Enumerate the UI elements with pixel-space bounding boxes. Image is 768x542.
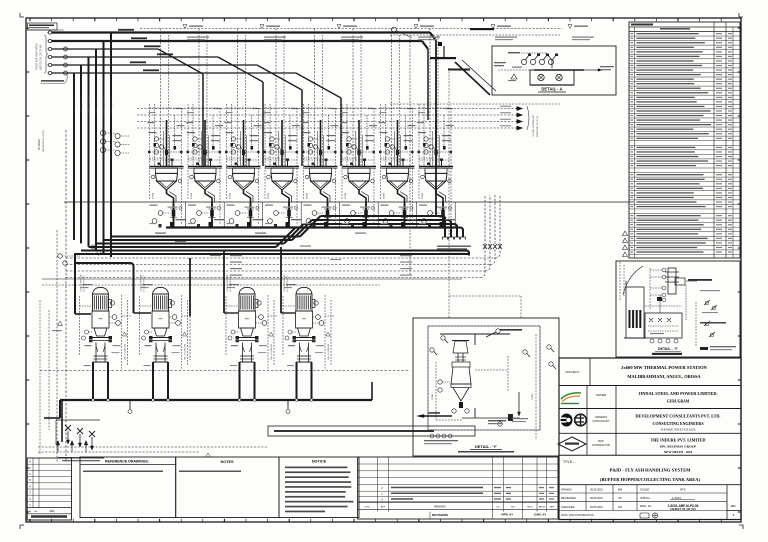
unit 5 cell texts	[304, 205, 312, 206]
unit 5 riser valves	[308, 143, 311, 146]
svg-text:1 NOS HOPPER A/B: 1 NOS HOPPER A/B	[226, 274, 229, 292]
svg-text:REVIEWED: REVIEWED	[561, 496, 576, 500]
air header flag 2	[260, 25, 264, 29]
unit 4 top texts	[264, 132, 272, 133]
detail Y outlet arrow	[424, 415, 452, 417]
svg-text:MECH: MECH	[539, 507, 546, 509]
unit 2 inlet valve	[203, 150, 206, 155]
unit 8 side nozzles	[421, 175, 425, 179]
detail Y top pipe	[440, 333, 510, 335]
left instrument bubbles of unit row	[100, 130, 105, 135]
slurry pump 3 motor	[239, 287, 255, 294]
svg-text:(REFER DR. 04 CP 18): (REFER DR. 04 CP 18)	[537, 116, 539, 137]
title block outline	[559, 358, 741, 520]
unit 5 discharge pipe	[327, 202, 329, 228]
svg-text:DEVELOPMENT CONSULTANTS PVT. L: DEVELOPMENT CONSULTANTS PVT. LTD.	[636, 414, 721, 419]
header pipe labels	[155, 233, 166, 234]
unit 2 discharge valve	[210, 210, 214, 217]
svg-text:DRAWN: DRAWN	[561, 488, 571, 492]
buffer hopper 7	[381, 166, 415, 168]
svg-text:REF: REF	[50, 510, 55, 513]
FD drain dashed riser	[65, 130, 67, 462]
pump 3 dashed enclosure	[267, 295, 269, 370]
unit 4 cell separator	[300, 202, 302, 228]
unit 8 cell dark marks	[440, 222, 444, 227]
pump 2 texts	[143, 284, 153, 285]
unit 1 instrument bubbles	[154, 137, 158, 141]
svg-text:MALIBRAHMANI, ANGUL, ORISSA: MALIBRAHMANI, ANGUL, ORISSA	[627, 374, 701, 379]
unit 2 side nozzles	[190, 175, 194, 179]
boundary line y202	[64, 201, 634, 203]
svg-text:NTS: NTS	[680, 488, 686, 492]
detail Y2 dashed risers	[649, 268, 651, 310]
unit 8 valve instrument	[428, 211, 433, 216]
detail Y tank valves	[459, 402, 463, 408]
unit 2 valve instrument	[197, 211, 202, 216]
unit 6 cell separator	[377, 202, 379, 228]
unit 8 feed pipe	[435, 120, 437, 166]
svg-text:200NB (C) PIPES: 200NB (C) PIPES	[89, 96, 91, 114]
buffer hopper 1	[150, 166, 184, 168]
svg-text:No.: No.	[34, 511, 38, 513]
unit 7 discharge pipe	[404, 202, 406, 228]
slurry pump 2 motor	[153, 287, 169, 294]
unit 4 inter dashes	[265, 151, 297, 153]
slurry header run 4	[89, 246, 277, 248]
long dashed line y447 y452	[38, 446, 268, 448]
pump 1 discharge pipes	[92, 362, 94, 400]
unit 3 discharge pipe	[250, 202, 252, 228]
svg-text:PROJECT: PROJECT	[565, 370, 579, 374]
unit 4 cell texts	[265, 205, 273, 206]
unit 4 dashed enclosure	[265, 107, 297, 109]
unit 1 valve instrument	[158, 211, 163, 216]
detail Y dashed right vertical	[535, 334, 537, 440]
title block project row	[559, 385, 741, 387]
svg-text:NOTES: NOTES	[220, 460, 234, 464]
svg-text:200NB (C) PIPES: 200NB (C) PIPES	[111, 96, 113, 114]
unit 2 riser valves	[192, 143, 195, 146]
svg-text:FD DRAIN: FD DRAIN	[38, 139, 41, 150]
title block bottom grid	[559, 484, 741, 486]
unit 2 cell separator	[223, 202, 225, 228]
detail Y bottom left circles	[430, 434, 434, 438]
pump 1 column	[95, 343, 97, 363]
svg-text:DETAIL - A: DETAIL - A	[541, 87, 562, 92]
unit 8 top texts	[418, 132, 426, 133]
air header flag 5	[491, 25, 495, 29]
detail Y lower piping	[474, 408, 476, 418]
unit 6 discharge pipe	[365, 202, 367, 228]
detail A FROM PUMP label	[494, 62, 506, 63]
unit 6 valve instrument	[351, 211, 356, 216]
unit 2 cell dark marks	[209, 222, 213, 227]
ESP feed line 1	[48, 31, 51, 34]
air header dashed line	[140, 28, 562, 30]
mid branch vertical x190	[189, 258, 191, 316]
buffer hopper unit 8 risers	[429, 29, 431, 167]
svg-text:200NB (C) PIPES: 200NB (C) PIPES	[81, 96, 83, 114]
unit 7 valve instrument	[389, 211, 394, 216]
DETAIL Y2 box	[616, 261, 740, 357]
unit 3 discharge valve	[249, 210, 253, 217]
pump 2 discharge pipes	[152, 362, 154, 400]
unit 5 discharge valve	[326, 210, 330, 217]
notice table	[279, 457, 359, 518]
buffer hopper 4	[265, 166, 299, 168]
unit 5 top texts	[303, 132, 311, 133]
svg-text:JOB No.: JOB No.	[640, 496, 651, 500]
wetting head labels	[430, 57, 456, 59]
unit 1 dashed enclosure	[150, 107, 182, 109]
unit 7 top texts	[380, 132, 388, 133]
detail A strainer box	[530, 70, 574, 85]
svg-text:LP COMPRESSOR: LP COMPRESSOR	[144, 275, 146, 292]
svg-text:EM: EM	[618, 488, 623, 492]
unit 6 inlet valve	[357, 150, 360, 155]
svg-text:200NB (C) PIPES: 200NB (C) PIPES	[96, 96, 98, 114]
unit 1 cell separator	[185, 202, 187, 228]
bill of materials table	[629, 22, 740, 258]
unit 8 discharge pipe	[442, 202, 444, 228]
ESP feed drop pipe 6	[73, 73, 75, 240]
svg-text:P&ID - FLY ASH HANDLING SYST: P&ID - FLY ASH HANDLING SYSTEM	[610, 468, 692, 473]
unit 2 discharge pipe	[211, 202, 213, 228]
dashed entry to detail Y2	[619, 262, 621, 300]
unit 1 discharge pipe	[173, 202, 175, 228]
pump 3 casing	[239, 311, 256, 328]
pump 4 column	[299, 343, 301, 363]
unit 1 cell texts	[150, 205, 158, 206]
pump 4 suction cone	[298, 328, 311, 336]
unit 8 discharge valve	[441, 210, 445, 217]
svg-text:250NB: 250NB	[384, 192, 386, 199]
pump 2 side dashes	[139, 296, 141, 356]
slurry header run 5	[81, 250, 466, 252]
unit 7 inter dashes	[381, 151, 413, 153]
svg-text:OWNER'S: OWNER'S	[595, 415, 607, 419]
svg-text:1 NOS HOPPER A/B: 1 NOS HOPPER A/B	[283, 274, 286, 292]
unit 3 feed pipe	[243, 120, 245, 166]
svg-text:1W x 1S (2W+2S): 1W x 1S (2W+2S)	[185, 344, 187, 360]
unit 7 dashed enclosure	[381, 107, 413, 109]
pump 4 flange	[293, 337, 315, 339]
unit 8 inter dashes	[419, 151, 451, 153]
svg-text:150NB: 150NB	[532, 393, 534, 400]
pump 4 branch feed	[280, 247, 282, 313]
svg-text:(SHEET 01 OF 02): (SHEET 01 OF 02)	[670, 507, 695, 511]
dashed stub x521 into detail Y	[520, 296, 522, 318]
unit 1 cell dark marks	[170, 222, 174, 227]
sheet symbol	[640, 513, 649, 518]
pump 3 column	[242, 343, 244, 363]
pump 2 dashed enclosure	[181, 295, 183, 370]
unit 2 cell texts	[188, 205, 196, 206]
svg-text:(REFER DR 07 GP TH): (REFER DR 07 GP TH)	[43, 130, 45, 152]
unit 2 feed pipe	[204, 120, 206, 166]
unit 8 cell texts	[419, 205, 427, 206]
unit 7 outlet pipe	[398, 190, 405, 202]
long dashed line y370	[40, 370, 410, 372]
unit 6 instrument bubbles	[347, 137, 351, 141]
svg-text:REF.: REF.	[731, 504, 737, 508]
ESP feed drop pipe 2	[103, 41, 105, 254]
unit 5 dashed enclosure	[304, 107, 336, 109]
pump 2 column	[155, 343, 157, 363]
svg-text:1W x 1S (2W+2S): 1W x 1S (2W+2S)	[271, 344, 273, 360]
pump 2 suction cone	[154, 328, 167, 336]
unit 7 cell dark marks	[401, 222, 405, 227]
unit 4 discharge valve	[287, 210, 291, 217]
unit 2 inter dashes	[188, 151, 220, 153]
svg-text:NOTICE: NOTICE	[312, 460, 327, 464]
svg-text:CONSULTANT: CONSULTANT	[592, 419, 610, 423]
unit 3 cell texts	[227, 205, 235, 206]
pump 3 side dashes	[225, 296, 227, 356]
pump discharge header	[60, 399, 372, 401]
buffer hopper 2	[188, 166, 222, 168]
title block owner row	[559, 408, 741, 410]
svg-text:250NB: 250NB	[230, 192, 232, 199]
svg-text:250NB: 250NB	[307, 192, 309, 199]
svg-text:24-B PARK STREET KOLKATA: 24-B PARK STREET KOLKATA	[660, 429, 695, 432]
buffer hopper 8	[419, 166, 453, 168]
ESP feed drop pipe 4	[88, 57, 90, 247]
svg-text:CONTRACTOR: CONTRACTOR	[592, 443, 610, 447]
unit 7 feed pipe	[397, 120, 399, 166]
svg-text:DD: DD	[496, 507, 500, 509]
air header flag 4	[414, 25, 418, 29]
svg-text:APP: APP	[381, 506, 386, 509]
svg-text:CHKD. BY: CHKD. BY	[534, 513, 547, 517]
BOM revision deltas	[622, 231, 627, 236]
buffer hopper unit 3 risers	[237, 29, 239, 167]
ESP feed line 2	[48, 39, 51, 42]
unit 7 instrument bubbles	[385, 137, 389, 141]
frame tick marks left	[26, 27, 29, 29]
ESP feed drop pipe 1	[110, 33, 112, 258]
detail Y inner dashes	[435, 362, 437, 420]
svg-text:DETAIL - 'Y': DETAIL - 'Y'	[658, 347, 678, 351]
unit 6 feed pipe	[358, 120, 360, 166]
DETAIL A box	[492, 46, 616, 95]
svg-text:THE INDURE PVT. LIMITED: THE INDURE PVT. LIMITED	[651, 438, 706, 443]
svg-text:250NB: 250NB	[422, 192, 424, 199]
svg-text:REMARKS: REMARKS	[434, 506, 446, 509]
svg-text:250NB: 250NB	[345, 192, 347, 199]
svg-text:200NB (C) PIPES: 200NB (C) PIPES	[74, 96, 76, 114]
svg-text:APPD. FOR CONSTRUCTION: APPD. FOR CONSTRUCTION	[561, 514, 594, 517]
buffer hopper unit 6 risers	[352, 29, 354, 167]
unit 6 side nozzles	[344, 175, 348, 179]
pump 1 texts	[83, 284, 93, 285]
pump 2 left instruments	[145, 330, 149, 334]
detail Y2 silo	[626, 287, 644, 338]
svg-text:1W x 1S (2W+2S): 1W x 1S (2W+2S)	[125, 344, 127, 360]
unit 6 riser valves	[346, 143, 349, 146]
unit 2 instrument bubbles	[193, 137, 197, 141]
pump 2 flange	[150, 337, 172, 339]
svg-text:LP COMPRESSOR: LP COMPRESSOR	[84, 275, 86, 292]
unit 7 discharge valve	[403, 210, 407, 217]
TO DAG HOPPER arrow lines	[390, 103, 560, 105]
detail Y2 extra dashes	[645, 305, 682, 307]
unit 3 inter dashes	[227, 151, 259, 153]
buffer hopper unit 5 risers	[314, 29, 316, 167]
svg-text:05.05.2010: 05.05.2010	[590, 496, 604, 500]
unit 5 side nozzles	[305, 175, 309, 179]
unit 4 outlet pipe	[282, 190, 289, 202]
unit 2 outlet pipe	[205, 190, 212, 202]
pump 4 dashed enclosure	[324, 295, 326, 370]
svg-text:250NB: 250NB	[153, 192, 155, 199]
slurry pump 1 motor	[93, 287, 109, 294]
unit 1 feed pipe	[166, 120, 168, 166]
unit 4 discharge pipe	[288, 202, 290, 228]
frame tick marks top	[29, 18, 31, 21]
svg-text:05.05.2010: 05.05.2010	[590, 488, 604, 492]
title block consultant row	[559, 432, 741, 434]
feed line labels dark	[118, 29, 134, 31]
svg-text:DETAIL - 'Y': DETAIL - 'Y'	[475, 444, 497, 449]
svg-text:NG: NG	[618, 505, 622, 509]
revision strip table	[358, 457, 558, 519]
pump 4 side dashes	[282, 296, 284, 356]
pump 1 branch feed	[74, 254, 76, 314]
unit 4 instrument bubbles	[270, 137, 274, 141]
unit 4 valve instrument	[274, 211, 279, 216]
svg-text:APPD. BY: APPD. BY	[501, 513, 514, 517]
buffer hopper unit 2 risers	[198, 29, 200, 167]
detail Y column pipe	[457, 353, 459, 362]
unit 7 cell texts	[381, 205, 389, 206]
detail Y side valves	[430, 348, 434, 352]
caption TO HIGH VELOCITY SLURRY PUMP	[437, 246, 471, 247]
svg-text:CONSULTING ENGINEERS: CONSULTING ENGINEERS	[652, 421, 704, 426]
unit 4 feed pipe	[281, 120, 283, 166]
pump 1 suction cone	[94, 328, 107, 336]
air header flag 6	[568, 25, 572, 29]
ESP feed line 3	[48, 47, 51, 50]
buffer hopper 5	[304, 166, 338, 168]
DCPL logo	[561, 414, 573, 427]
detail Y inner dashed loop	[428, 326, 540, 430]
svg-text:(BUFFER HOPPER/COLLECTING TANK: (BUFFER HOPPER/COLLECTING TANK AREA)	[600, 477, 700, 482]
svg-text:05.05.2010: 05.05.2010	[590, 505, 604, 509]
svg-text:MG: MG	[511, 507, 515, 509]
svg-text:250NB: 250NB	[268, 192, 270, 199]
slurry header run 3	[96, 243, 284, 245]
unit 1 inlet valve	[165, 150, 168, 155]
pump 4 discharge pipes	[296, 362, 298, 400]
slurry header run 1	[111, 236, 300, 238]
unit 6 cell texts	[342, 205, 350, 206]
unit 5 valve instrument	[312, 211, 317, 216]
slurry pump 4 motor	[296, 287, 312, 294]
unit 8 instrument bubbles	[424, 137, 428, 141]
notes table	[176, 457, 279, 518]
svg-text:JINDAL STEEL AND POWER LIMITED: JINDAL STEEL AND POWER LIMITED,	[638, 391, 717, 396]
indure logo diamond	[558, 437, 586, 451]
unit 4 inlet valve	[280, 150, 283, 155]
unit 5 feed pipe	[320, 120, 322, 166]
detail Y collecting tank	[452, 362, 470, 367]
ESP feed drop pipe 5	[80, 65, 82, 243]
svg-text:SCALE: SCALE	[640, 488, 649, 492]
ESP feed drop pipe 3	[95, 49, 97, 250]
detail A TO WETTING HEAD label	[600, 66, 614, 67]
revision table bottom left	[27, 458, 71, 520]
unit 3 side nozzles	[228, 175, 232, 179]
long dashed vertical x410	[409, 35, 411, 275]
slurry header run 6	[74, 253, 470, 255]
svg-text:2x600 MW THERMAL POWER STATION: 2x600 MW THERMAL POWER STATION	[621, 365, 707, 370]
pump 1 dashed enclosure	[121, 295, 123, 370]
detail Y2 right piping	[695, 302, 697, 346]
pump 3 texts	[229, 284, 239, 285]
svg-text:(REFER DR. 37 CP. IN): (REFER DR. 37 CP. IN)	[40, 45, 43, 70]
pump 1 casing	[92, 311, 109, 328]
unit 7 side nozzles	[382, 175, 386, 179]
svg-text:LP COMPRESSOR: LP COMPRESSOR	[287, 275, 289, 292]
pump 3 instruments	[259, 315, 264, 320]
svg-text:1-5051: 1-5051	[672, 496, 681, 500]
svg-text:PROJ: PROJ	[527, 507, 533, 509]
svg-text:BOP: BOP	[598, 439, 604, 443]
svg-text:CHECKED: CHECKED	[561, 505, 575, 509]
small delta above ref table	[206, 453, 211, 457]
DETAIL Y box	[413, 318, 559, 456]
long dashed vertical x449	[448, 68, 450, 318]
ESP feed line 5	[48, 63, 51, 66]
unit 8 inlet valve	[434, 150, 437, 155]
svg-text:100NB: 100NB	[432, 393, 434, 400]
unit 5 outlet pipe	[321, 190, 328, 202]
unit 4 side nozzles	[267, 175, 271, 179]
pump 1 side dashes	[79, 296, 81, 356]
detail Y aeration arrow	[518, 392, 520, 412]
detail Y left circles	[438, 380, 442, 384]
bracket for feed group	[44, 35, 48, 73]
thin line y279	[42, 278, 462, 280]
svg-text:1 NOS HOPPER A/B: 1 NOS HOPPER A/B	[80, 274, 83, 292]
svg-text:REFERENCE DRAWINGS.: REFERENCE DRAWINGS.	[105, 460, 149, 464]
title stamp box top-left	[28, 23, 58, 30]
pump 3 discharge pipes	[239, 362, 241, 400]
unit 8 dashed enclosure	[419, 107, 451, 109]
pump 4 texts	[286, 284, 296, 285]
collection header	[166, 226, 455, 228]
unit 3 cell dark marks	[247, 222, 251, 227]
pump 1 instruments	[112, 315, 117, 320]
svg-text:TO DAG HOPPER MP: TO DAG HOPPER MP	[532, 114, 535, 137]
detail A main pipe	[498, 69, 534, 71]
svg-text:REF: REF	[550, 507, 555, 509]
left drain assembly	[61, 400, 63, 442]
unit 1 discharge valve	[172, 210, 176, 217]
unit 5 cell dark marks	[324, 222, 328, 227]
detail Y2 arrow label	[686, 280, 697, 282]
ESP feed line 4	[48, 55, 51, 58]
buffer hopper 3	[227, 166, 261, 168]
unit 3 instrument bubbles	[231, 137, 235, 141]
detail Y2 hopper	[645, 313, 682, 338]
detail A FROM A/S label	[508, 52, 520, 53]
unit 5 instrument bubbles	[308, 137, 312, 141]
title block BOP row	[559, 454, 741, 456]
unit 7 riser valves	[385, 143, 388, 146]
pump 1 left instruments	[85, 330, 89, 334]
